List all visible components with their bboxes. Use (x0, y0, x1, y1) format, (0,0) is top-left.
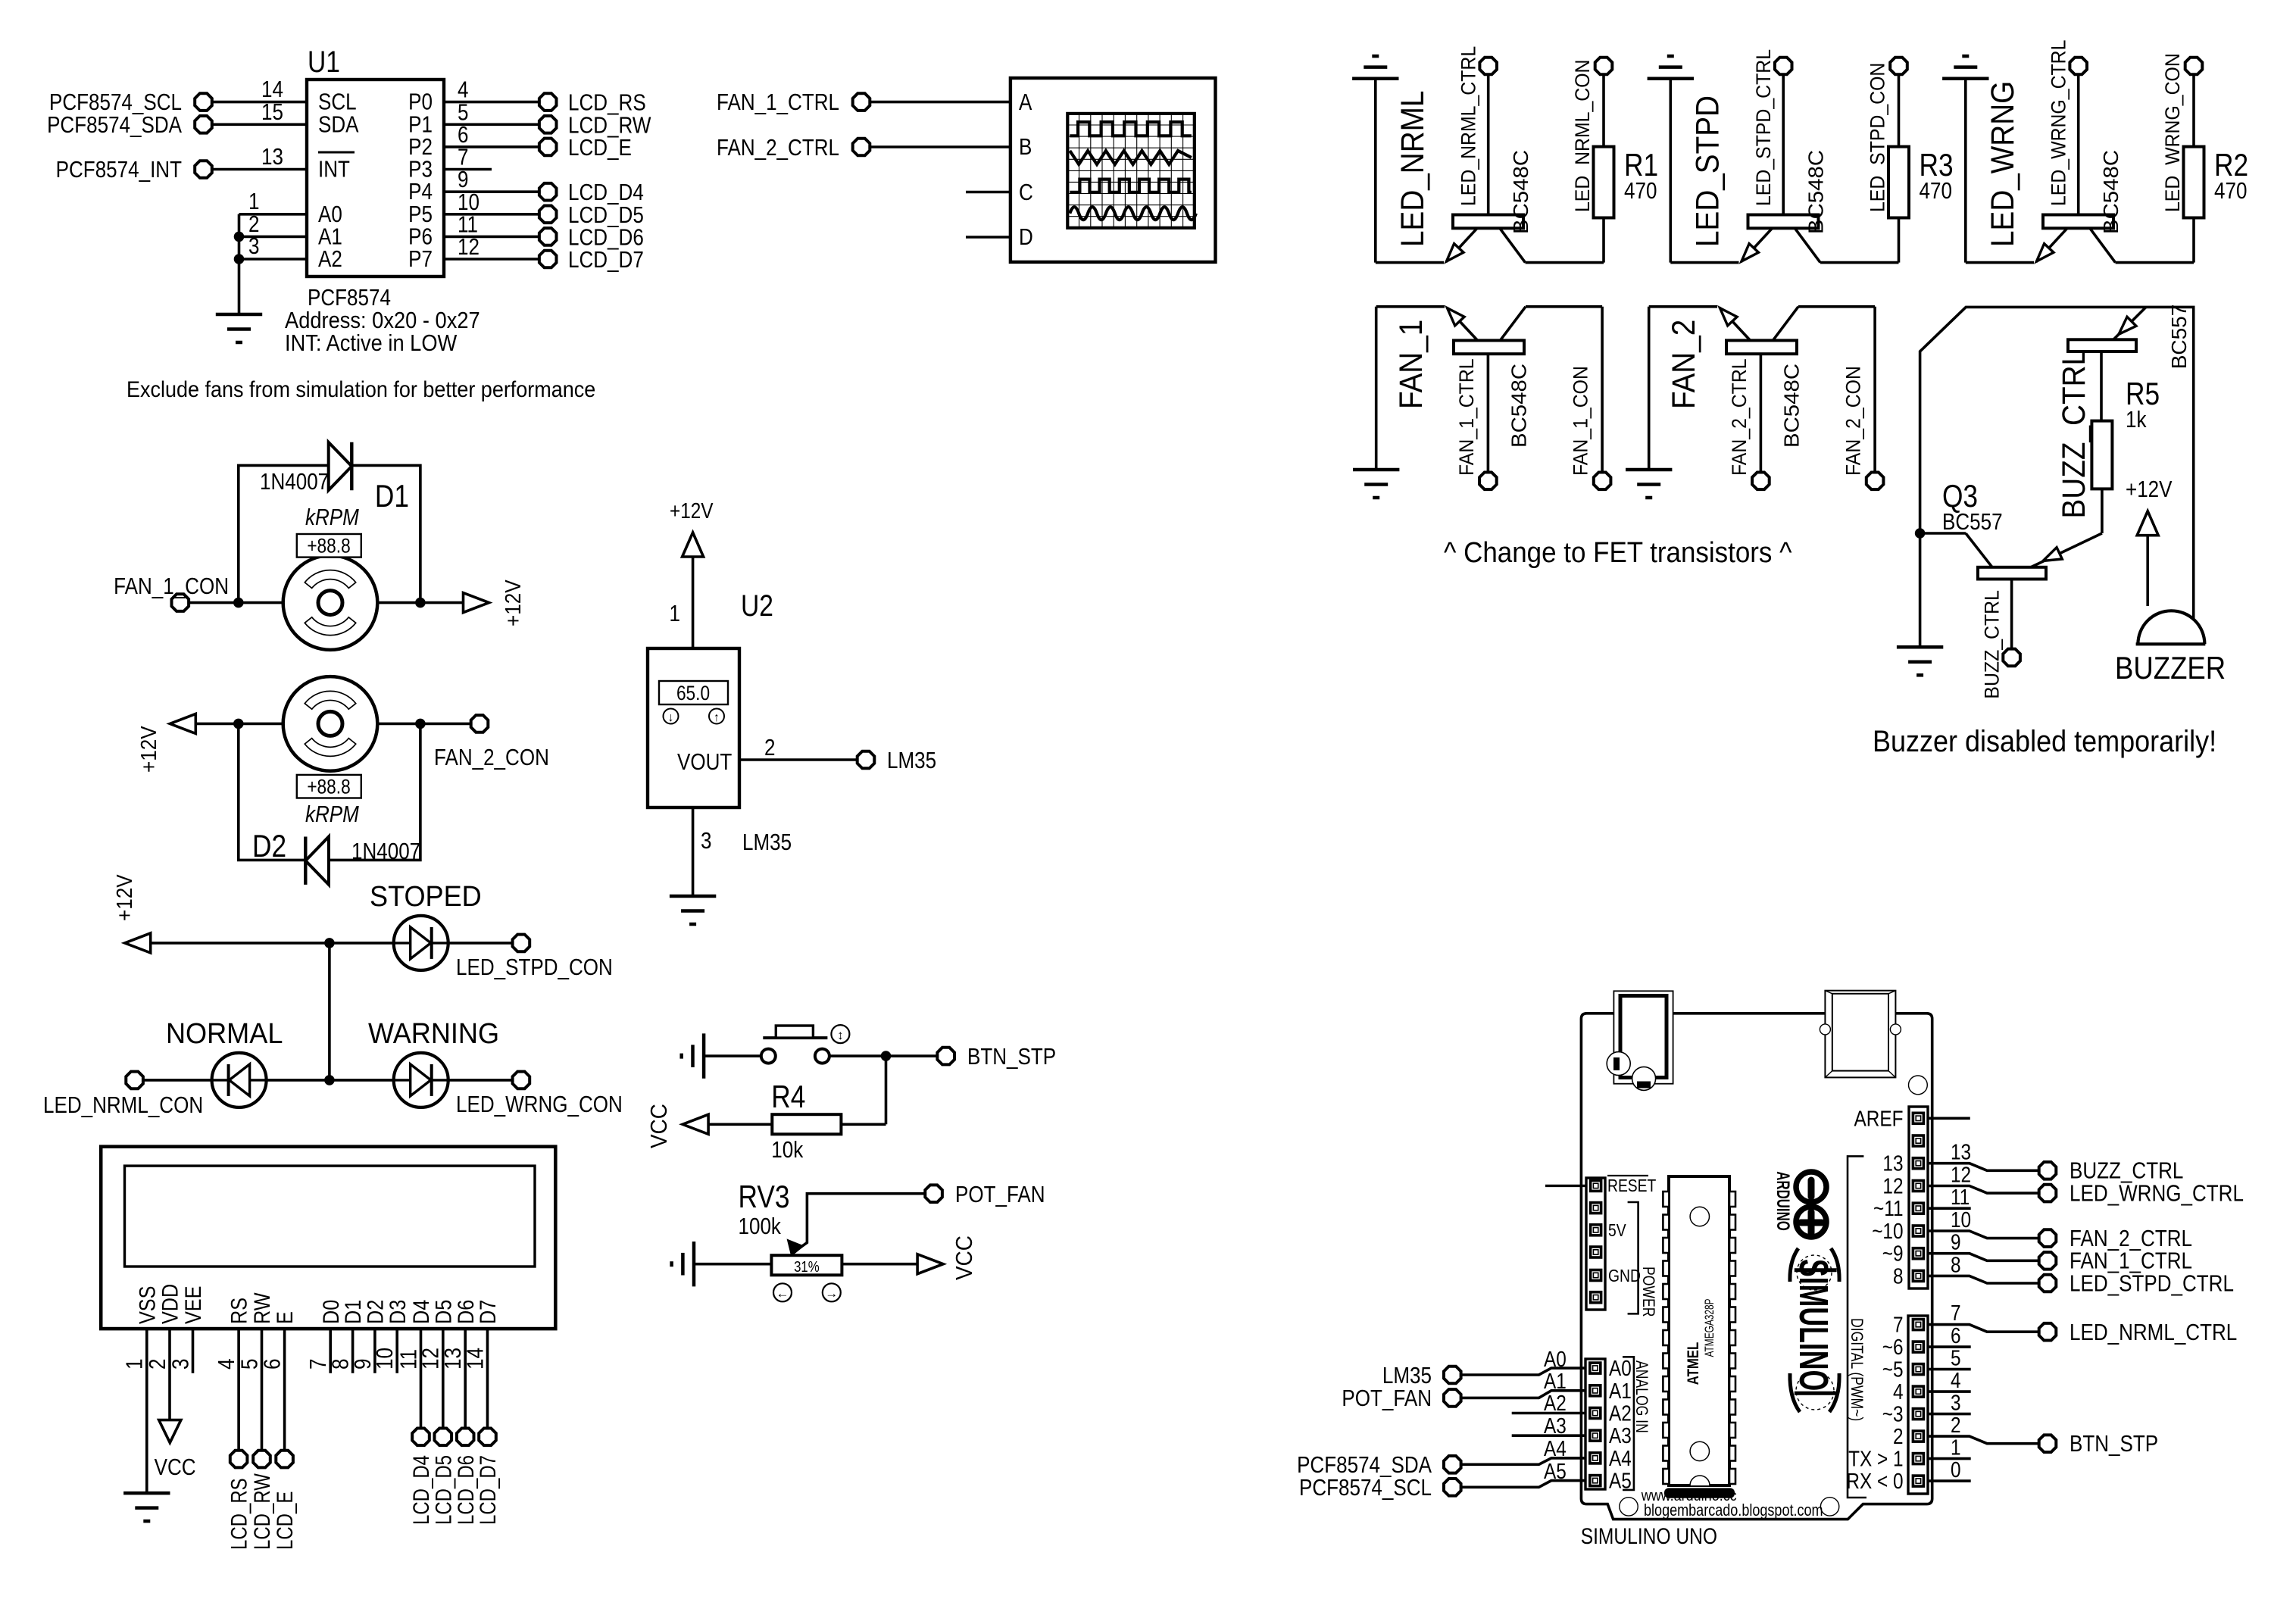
terminal LCD_D5 (435, 1429, 452, 1446)
svg-text:11: 11 (1951, 1185, 1970, 1209)
wire normal to junction to warning (267, 1079, 394, 1082)
label pin A1 inside (1609, 1379, 1632, 1403)
wire U1 pin10 (444, 189, 539, 216)
transistor BC548C (NPN) (1742, 215, 1821, 263)
svg-text:LED_WRNG_CON: LED_WRNG_CON (456, 1092, 623, 1118)
svg-text:LED_WRNG_CTRL: LED_WRNG_CTRL (2070, 1180, 2244, 1207)
terminal LCD_D7 (539, 247, 644, 273)
wire U1 pin12 (444, 234, 539, 261)
label pin 13 (1882, 1151, 1903, 1176)
svg-text:SIMULINO: SIMULINO (1791, 1259, 1836, 1391)
svg-text:LCD_D7: LCD_D7 (568, 247, 644, 273)
svg-text:RW: RW (249, 1292, 275, 1324)
svg-text:BC548C: BC548C (1510, 150, 1533, 234)
wire base FAN_2_CTRL (1760, 354, 1763, 472)
terminal LED_WRNG_CON (456, 1072, 623, 1118)
wire scope D stub (966, 236, 1011, 239)
wire U1 pin9 (444, 167, 539, 193)
svg-text:POT_FAN: POT_FAN (1342, 1385, 1432, 1412)
svg-text:VCC: VCC (155, 1454, 196, 1481)
wire button left (704, 1054, 761, 1057)
ground FAN_1 cell (1353, 307, 1399, 498)
svg-text:2: 2 (764, 735, 775, 761)
terminal PCF8574_SCL arduino (1299, 1475, 1461, 1501)
terminal FAN_1_CTRL (2039, 1248, 2192, 1275)
led WARNING (368, 1017, 499, 1107)
ground RV3 (672, 1242, 772, 1286)
note change to FET (1444, 536, 1792, 569)
svg-text:2: 2 (1893, 1424, 1904, 1448)
svg-text:BC557: BC557 (1942, 509, 2003, 536)
terminal LCD_RW (253, 1451, 270, 1468)
power +12V buzzer (2126, 476, 2173, 606)
wire nrml terminal to led (144, 1079, 212, 1082)
diode D2 1N4007 (252, 829, 420, 885)
wire arduino A2 stub (1512, 1391, 1585, 1415)
junction led row top (324, 938, 335, 948)
wire +12V to stoped led (151, 942, 394, 945)
wire U1 pin6 (444, 122, 539, 148)
svg-text:A1: A1 (1544, 1369, 1567, 1393)
svg-text:U2: U2 (741, 589, 773, 622)
ground LED_STPD cell (1648, 56, 1694, 263)
svg-text:→: → (825, 1286, 838, 1301)
board hole bottom right (1820, 1498, 1838, 1516)
svg-text:+12V: +12V (112, 874, 137, 921)
transistor BC548C (NPN) (2036, 215, 2116, 263)
svg-text:LED_STPD_CTRL: LED_STPD_CTRL (2070, 1270, 2234, 1297)
terminal POT_FAN (925, 1182, 1045, 1208)
reset/power header (1586, 1178, 1605, 1310)
wire Q3 base (2010, 579, 2013, 649)
svg-text:LED_WRNG_CTRL: LED_WRNG_CTRL (2048, 40, 2070, 206)
svg-text:LED_STPD: LED_STPD (1689, 95, 1726, 247)
svg-text:470: 470 (1624, 178, 1657, 205)
terminal LM35 (857, 748, 936, 774)
svg-text:12: 12 (1882, 1174, 1903, 1198)
svg-text:A2: A2 (1544, 1391, 1567, 1415)
svg-text:5: 5 (1951, 1346, 1961, 1370)
wire scope B (870, 145, 1011, 148)
transistor Q3 BC557 (PNP) (1920, 533, 2063, 579)
terminal LED_NRML_CTRL (1479, 58, 1497, 75)
ground U1 address pins (216, 314, 262, 342)
svg-text:↑: ↑ (714, 711, 720, 724)
svg-text:0: 0 (1951, 1457, 1961, 1482)
svg-text:+88.8: +88.8 (307, 535, 350, 558)
net label LCD_D5 (430, 1455, 456, 1525)
svg-text:A2: A2 (1609, 1401, 1632, 1426)
junction BTN (881, 1051, 892, 1061)
svg-text:BTN_STP: BTN_STP (967, 1044, 1056, 1070)
scope waveform sine D (1070, 207, 1196, 220)
wire FAN1 motor rail (189, 601, 464, 604)
svg-text:+12V: +12V (670, 498, 714, 523)
svg-text:PCF8574: PCF8574 (308, 285, 391, 311)
wire emitter rail (1376, 305, 1445, 308)
svg-text:10k: 10k (771, 1137, 804, 1164)
svg-text:INT: Active in LOW: INT: Active in LOW (285, 330, 458, 356)
LCD pin numbers (122, 1348, 489, 1370)
svg-text:4: 4 (1893, 1379, 1904, 1404)
svg-text:7: 7 (1951, 1301, 1961, 1325)
svg-text:A0: A0 (1544, 1347, 1567, 1371)
svg-text:~10: ~10 (1872, 1219, 1903, 1243)
wire collector rail (1820, 261, 1899, 264)
terminal LCD_RS (539, 90, 646, 117)
terminal BTN_STP (937, 1044, 1056, 1070)
power +12V left (motor2) (136, 714, 195, 773)
label pin A2 inside (1609, 1401, 1632, 1426)
wire arduino A1 (1462, 1369, 1585, 1398)
net label FAN_1_CON (1570, 366, 1592, 476)
power VCC RV3 (842, 1235, 977, 1280)
wire emitter rail (1966, 261, 2034, 264)
svg-text:LED_STPD_CON: LED_STPD_CON (456, 954, 613, 981)
svg-text:LCD_E: LCD_E (272, 1491, 298, 1550)
wire U1 pin5 (444, 99, 539, 126)
terminal LED_NRML_CON (1595, 58, 1613, 75)
net label LED_NRML_CON (1572, 59, 1594, 212)
wire U2 pin3 (693, 807, 792, 896)
simulino decoration (1790, 1248, 1839, 1412)
wire AREF stub (1928, 1117, 1970, 1120)
wire POT_FAN to wiper (797, 1194, 925, 1250)
junction D2 left (233, 719, 244, 729)
net label LED_WRNG (1984, 81, 2020, 247)
resistor R1 470 (1594, 75, 1659, 263)
potentiometer RV3 body (771, 1255, 842, 1275)
terminal LCD_D6 (457, 1429, 474, 1446)
svg-text:+88.8: +88.8 (307, 776, 350, 798)
svg-text:SIMULINO UNO: SIMULINO UNO (1581, 1523, 1717, 1549)
svg-text:10: 10 (1951, 1207, 1971, 1232)
label pin 8 (1893, 1263, 1904, 1288)
svg-text:2: 2 (1951, 1413, 1961, 1437)
svg-text:A3: A3 (1544, 1413, 1567, 1438)
LCD pin name labels (134, 1284, 500, 1324)
wire arduino pin 9 (1928, 1230, 2038, 1261)
junction A2 (234, 254, 245, 264)
wire button right to BTN_STP (829, 1054, 937, 1057)
wire U1 pin14 SCL (212, 77, 307, 103)
power VCC LCD VDD (155, 1420, 196, 1481)
svg-text:BC557: BC557 (2167, 305, 2191, 370)
net label LCD_E (272, 1491, 298, 1550)
wire U1 pin7 P3 stub (444, 144, 492, 170)
ground LED_NRML cell (1352, 56, 1398, 263)
label pin ~3 (1882, 1402, 1904, 1426)
net label LCD_RS (226, 1478, 251, 1550)
power jack (1607, 991, 1673, 1090)
svg-text:1: 1 (1951, 1435, 1961, 1460)
label pin A4 inside (1609, 1446, 1632, 1470)
svg-text:RX < 0: RX < 0 (1846, 1469, 1903, 1493)
net label FAN_1 (1392, 320, 1429, 409)
DIGITAL bracket (1848, 1156, 1866, 1498)
svg-text:A4: A4 (1609, 1446, 1632, 1470)
motor1 display +88.8 kRPM (297, 504, 361, 558)
wire base FAN_1_CTRL (1487, 354, 1490, 472)
svg-text:BUZZER: BUZZER (2115, 651, 2226, 686)
terminal BUZZ_CTRL (2039, 1158, 2184, 1185)
resistor R2 470 (2184, 75, 2249, 263)
label RX0 (1846, 1469, 1903, 1493)
net label LCD_D6 (452, 1455, 478, 1525)
label RV3 100k (739, 1179, 790, 1239)
label POWER (1639, 1267, 1657, 1317)
svg-text:SDA: SDA (318, 111, 359, 138)
resistor R4 10k (771, 1079, 841, 1163)
wire base LED_NRML_CTRL (1487, 75, 1490, 215)
net label FAN_1_CTRL (1456, 358, 1478, 476)
terminal LED_WRNG_CTRL (2070, 58, 2087, 75)
terminal PCF8574_SCL (49, 89, 212, 116)
wire emitter rail (1649, 305, 1717, 308)
wire arduino pin 2 (1928, 1413, 2038, 1444)
svg-text:4: 4 (1951, 1368, 1961, 1392)
label pin 2 (1893, 1424, 1904, 1448)
svg-text:15: 15 (261, 99, 283, 126)
svg-text:kRPM: kRPM (305, 801, 359, 828)
label ANALOG IN (1632, 1360, 1651, 1433)
terminal LCD_D4 (412, 1429, 430, 1446)
transistor BC548C (NPN) (1447, 307, 1526, 354)
svg-text:3: 3 (248, 233, 259, 260)
svg-text:7: 7 (1893, 1313, 1904, 1337)
terminal FAN_2_CON (motor) (434, 715, 549, 770)
terminal LED_STPD_CON (456, 935, 613, 981)
terminal LCD_E (539, 135, 632, 161)
terminal FAN_1_CON (1594, 473, 1611, 490)
label pin ~10 (1872, 1219, 1903, 1243)
svg-text:NORMAL: NORMAL (166, 1017, 283, 1049)
svg-text:LED_NRML_CTRL: LED_NRML_CTRL (2070, 1320, 2237, 1346)
arduino logo (1773, 1171, 1826, 1237)
terminal LED_NRML_CON (43, 1072, 203, 1119)
label pin ~9 (1882, 1242, 1904, 1266)
svg-text:BC548C: BC548C (2100, 150, 2123, 234)
svg-text:D7: D7 (475, 1300, 501, 1324)
svg-text:VOUT: VOUT (677, 749, 732, 776)
wire U1 pin13 INT (212, 144, 307, 170)
svg-text:DIGITAL (PWM~): DIGITAL (PWM~) (1848, 1318, 1866, 1421)
wire scope C stub (966, 191, 1011, 194)
svg-text:8: 8 (1893, 1263, 1904, 1288)
svg-text:FAN_2: FAN_2 (1665, 320, 1701, 409)
wiper arrow (788, 1240, 803, 1255)
svg-text:A: A (1019, 89, 1032, 116)
label BC548C (1804, 150, 1828, 234)
wire arduino pin 10 (1928, 1207, 2038, 1238)
svg-text:RESET: RESET (1607, 1177, 1656, 1196)
svg-text:A2: A2 (318, 246, 342, 273)
svg-text:LED_STPD_CTRL: LED_STPD_CTRL (1753, 49, 1775, 206)
wire Q3 ground stem (1919, 533, 1922, 647)
label BC557 upper (2167, 305, 2191, 370)
svg-text:1N4007: 1N4007 (351, 839, 420, 865)
label TX1 (1848, 1447, 1903, 1471)
wire R5 to Q3 emitter (2031, 489, 2102, 567)
analog header (1585, 1359, 1605, 1489)
terminal LM35 arduino (1382, 1363, 1461, 1389)
svg-text:3: 3 (1951, 1391, 1961, 1415)
wire junction to R4 (841, 1056, 886, 1124)
svg-text:POT_FAN: POT_FAN (955, 1182, 1045, 1208)
svg-text:D: D (1019, 224, 1033, 251)
POWER bracket (1628, 1202, 1638, 1313)
svg-text:R4: R4 (771, 1079, 805, 1115)
svg-text:AREF: AREF (1854, 1107, 1904, 1131)
svg-text:RV3: RV3 (739, 1179, 790, 1215)
svg-text:1k: 1k (2126, 407, 2147, 433)
power +12V U2 (670, 498, 714, 648)
terminal PCF8574_SDA arduino (1297, 1452, 1461, 1479)
svg-text:LCD_RS: LCD_RS (226, 1478, 251, 1550)
svg-text:LCD_D7: LCD_D7 (474, 1455, 500, 1525)
ground button (682, 1033, 704, 1078)
terminal PCF8574_INT (56, 157, 212, 183)
svg-text:P7: P7 (408, 246, 433, 273)
svg-text:LED_WRNG_CON: LED_WRNG_CON (2162, 53, 2184, 212)
digital header upper (1909, 1107, 1928, 1288)
junction A1 (234, 232, 245, 242)
svg-text:D3: D3 (385, 1300, 411, 1324)
svg-text:13: 13 (1951, 1140, 1971, 1164)
board web labels (1641, 1488, 1823, 1520)
svg-text:13: 13 (1882, 1151, 1903, 1176)
wire led row vertical (328, 943, 331, 1080)
wire collector rail (1798, 307, 1875, 472)
svg-text:2: 2 (145, 1359, 171, 1370)
svg-text:~11: ~11 (1873, 1196, 1903, 1220)
svg-text:FAN_2_CTRL: FAN_2_CTRL (1729, 358, 1751, 476)
svg-text:BTN_STP: BTN_STP (2070, 1431, 2158, 1457)
svg-text:BC548C: BC548C (1804, 150, 1828, 234)
scope waveform triangle B (1070, 151, 1192, 164)
wire arduino pin 7 (1928, 1301, 2038, 1332)
net label LED_NRML_CTRL (1458, 46, 1480, 206)
svg-text:LCD_RW: LCD_RW (248, 1473, 274, 1550)
svg-text:TX > 1: TX > 1 (1848, 1447, 1903, 1471)
terminal LED_WRNG_CON (2185, 58, 2203, 75)
push button (761, 1025, 850, 1064)
wire arduino pin 4 stub (1928, 1368, 1971, 1392)
label 5V (1608, 1222, 1626, 1241)
svg-text:FAN_1_CTRL: FAN_1_CTRL (1456, 358, 1478, 476)
svg-text:VCC: VCC (646, 1104, 673, 1148)
label SIMULINO (1791, 1259, 1836, 1391)
svg-text:U1: U1 (308, 45, 340, 78)
note text exclude fans (127, 377, 595, 403)
svg-text:9: 9 (1951, 1230, 1961, 1254)
net label FAN_2 (1665, 320, 1701, 409)
label pin ~11 (1873, 1196, 1903, 1220)
svg-text:FAN_2_CON: FAN_2_CON (1842, 366, 1864, 476)
svg-text:VSS: VSS (134, 1286, 160, 1324)
junction D1 left (233, 598, 244, 608)
svg-text:RS: RS (226, 1298, 252, 1324)
wire U1 pin1 A0 (239, 189, 308, 215)
net label LCD_RW (248, 1473, 274, 1550)
IC U1 PCF8574 body (307, 45, 444, 276)
wire arduino pin 12 (1928, 1163, 2038, 1194)
svg-text:VCC: VCC (951, 1235, 978, 1280)
terminal FAN_2_CTRL (scope B) (717, 135, 870, 161)
ground LCD VSS (123, 1493, 170, 1521)
svg-text:3: 3 (701, 828, 711, 854)
Simulino Uno board outline (1581, 1014, 1932, 1520)
svg-text:470: 470 (1920, 178, 1952, 205)
net label LED_STPD (1689, 95, 1726, 247)
wire U1 pin2 A1 (239, 211, 308, 238)
label pin 4 (1893, 1379, 1904, 1404)
led NORMAL (166, 1017, 283, 1107)
LCD pin stub wires (147, 1329, 488, 1491)
note buzzer disabled (1873, 725, 2216, 758)
svg-text:BUZZ_CTRL: BUZZ_CTRL (2055, 349, 2091, 519)
svg-text:5V: 5V (1608, 1222, 1626, 1241)
svg-text:6: 6 (1951, 1323, 1961, 1348)
junction D2 right (415, 719, 426, 729)
terminal FAN_2_CON (1866, 473, 1884, 490)
label pin ~6 (1882, 1335, 1904, 1359)
junction D1 right (415, 598, 426, 608)
svg-text:A5: A5 (1544, 1459, 1567, 1483)
terminal LED_STPD_CTRL (1775, 58, 1792, 75)
U1 value labels (285, 285, 480, 357)
fan motor 2 (283, 676, 378, 771)
label pin A0 inside (1609, 1356, 1632, 1380)
wire arduino pin 11 stub (1928, 1185, 1971, 1209)
svg-text:BC548C: BC548C (1780, 364, 1804, 448)
svg-text:1: 1 (670, 601, 680, 627)
svg-text:~5: ~5 (1882, 1357, 1904, 1382)
terminal FAN_2_CTRL (2039, 1226, 2192, 1252)
transistor BC557 upper (PNP) (2068, 307, 2146, 351)
svg-text:ATMEGA328P: ATMEGA328P (1703, 1298, 1717, 1357)
terminal LED_STPD_CTRL (2039, 1270, 2234, 1297)
led STOPED (370, 879, 482, 970)
junction led row bottom (324, 1075, 335, 1085)
svg-text:VEE: VEE (180, 1286, 206, 1324)
junction Q3 collector (1915, 528, 1926, 539)
fan motor 1 (283, 555, 378, 650)
svg-text:VDD: VDD (158, 1284, 183, 1324)
svg-text:ATMEL: ATMEL (1685, 1342, 1702, 1385)
label BC548C (1780, 364, 1804, 448)
ground Q3 (1897, 647, 1943, 675)
wire arduino pin 5 stub (1928, 1346, 1971, 1370)
ground FAN_2 cell (1626, 307, 1672, 498)
svg-text:A0: A0 (1609, 1356, 1632, 1380)
wire Q3 collector net (left loop) (1920, 307, 2194, 644)
svg-text:LED_NRML: LED_NRML (1394, 91, 1430, 247)
svg-text:ARDUINO: ARDUINO (1773, 1171, 1793, 1230)
svg-text:blogembarcado.blogspot.com: blogembarcado.blogspot.com (1644, 1501, 1823, 1520)
wire U1 pin4 (444, 77, 539, 104)
terminal FAN_1_CON (motor) (114, 573, 229, 611)
svg-text:B: B (1019, 134, 1032, 161)
terminal LED_STPD_CON (1890, 58, 1907, 75)
svg-text:↓: ↓ (668, 711, 674, 724)
motor2 display +88.8 kRPM (297, 775, 361, 828)
usb connector (1820, 991, 1901, 1078)
ground U2 (670, 896, 716, 924)
wire U1 pin15 SDA (212, 99, 307, 126)
resistor R5 1k (2091, 376, 2160, 489)
svg-text:LED_NRML_CON: LED_NRML_CON (1572, 59, 1594, 212)
